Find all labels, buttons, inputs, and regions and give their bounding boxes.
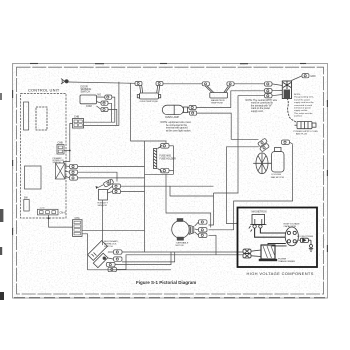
svg-text:supply cord.: supply cord. (251, 110, 264, 113)
primary relay lug 2 (65, 170, 78, 174)
door sensing switch (80, 95, 97, 104)
svg-text:earthed.: earthed. (294, 115, 302, 118)
fuse and fuse holder body (154, 145, 174, 174)
svg-text:COM: COM (86, 105, 92, 108)
svg-text:Figure S-1 Pictorial Diagram: Figure S-1 Pictorial Diagram (136, 280, 196, 285)
magnetron temp fuse left lug (202, 82, 209, 86)
wire: COM lug (108, 103, 112, 122)
humidity sensor lug right 1 (108, 184, 121, 190)
humidity sensor angled lug (103, 179, 114, 187)
svg-text:SWITCH: SWITCH (81, 91, 91, 94)
svg-text:HIGH VOLTAGE COMPONENTS: HIGH VOLTAGE COMPONENTS (247, 271, 314, 276)
wire: CHB left down to interlock (64, 124, 73, 164)
primary interlock relay (56, 163, 66, 179)
svg-text:The grounding term-: The grounding term- (294, 96, 314, 99)
control unit relay box (25, 166, 42, 189)
svg-text:connected to earth: connected to earth (294, 104, 313, 107)
wire: primary lug3 to trunk (78, 177, 145, 179)
power cord lug row1 (265, 82, 283, 86)
border frame outer (13, 64, 328, 299)
oven lamp note (161, 121, 191, 132)
transformer lug 1 (243, 249, 261, 253)
secondary interlock lug 1 (108, 250, 122, 254)
svg-text:1 2 3: 1 2 3 (40, 208, 46, 210)
svg-text:CHB: CHB (58, 142, 63, 145)
svg-text:SECONDARY: SECONDARY (104, 240, 118, 243)
chassis screw terminal (61, 79, 68, 84)
high voltage components box (238, 208, 318, 268)
cooling fan blade (253, 153, 271, 174)
wire: CN-A down to CHA (49, 215, 73, 227)
wire: motor lug1 riser (209, 193, 214, 225)
power supply plug (295, 122, 317, 129)
power cord tail (287, 98, 296, 122)
power cord lug row2 (265, 89, 283, 93)
primary relay lug 3 (65, 176, 78, 180)
wire: humidity body down to secondary interlock (102, 200, 104, 245)
svg-text:TURNTABLE: TURNTABLE (176, 242, 189, 245)
humidity sensor body (99, 190, 108, 201)
svg-text:MAGNETRON: MAGNETRON (211, 99, 225, 102)
h.v. rectifier (298, 238, 311, 242)
grounding lug GRN (292, 74, 310, 81)
humidity sensor lug right 2 (108, 189, 121, 193)
power supply cord strain relief (282, 81, 291, 99)
svg-text:This outlet must be: This outlet must be (294, 112, 313, 115)
oven lamp lug bottom (190, 111, 197, 115)
svg-text:TEMP FUSE: TEMP FUSE (211, 103, 223, 105)
secondary interlock switch body (88, 241, 108, 268)
oven temp fuse body (137, 86, 160, 100)
fan top lug (282, 140, 293, 144)
wire: turntable feed (170, 186, 214, 196)
wire: magnetron fuse to cord lug1 (234, 83, 264, 85)
wire: magnetron filament to capacitor (255, 228, 286, 237)
control unit keypad (36, 107, 47, 130)
wire: lamp top lug to cord row2 (196, 91, 264, 108)
wire: screw to oven temp fuse (68, 82, 135, 83)
svg-text:TRANSFORMER: TRANSFORMER (278, 260, 295, 263)
wire: oven fuse left down to fuse holder (131, 83, 166, 143)
fan lug upper (258, 138, 268, 147)
secondary interlock lug 4 (108, 267, 117, 271)
svg-text:MAGNETRON: MAGNETRON (252, 210, 267, 213)
svg-text:the terminal with "W": the terminal with "W" (251, 104, 272, 107)
svg-text:mark on the power: mark on the power (251, 107, 270, 110)
svg-text:FUSE HOLDER: FUSE HOLDER (160, 158, 177, 160)
turntable lug 1 (195, 220, 207, 226)
svg-text:OVEN LAMP: OVEN LAMP (165, 116, 179, 119)
fuse holder top lug (161, 144, 174, 149)
wire: sec lug3 run (115, 252, 171, 265)
wire: sec lug2 run (122, 252, 175, 262)
wire: cord row3 trunk (214, 96, 265, 193)
oven temp fuse right lug (156, 82, 163, 86)
wire: fan top lug to motor lug2 (209, 144, 293, 230)
svg-text:GRN: GRN (310, 76, 315, 78)
door switch lug NC (97, 106, 109, 112)
svg-text:HIGH VOLTAGE: HIGH VOLTAGE (284, 222, 301, 225)
wire: door loop outer (84, 82, 119, 126)
connector CHB inside control unit (57, 142, 64, 155)
svg-text:must be connected to: must be connected to (251, 102, 274, 105)
svg-text:terminal of power: terminal of power (294, 107, 311, 110)
svg-text:CN-A: CN-A (60, 210, 67, 214)
svg-text:CHB: CHB (74, 116, 79, 119)
magnetron (249, 215, 267, 232)
door switch lug COM (97, 101, 109, 105)
svg-text:FUSE AND: FUSE AND (160, 155, 172, 158)
wire: lamp bottom lug to fan upper lug (197, 113, 259, 139)
svg-text:NOTE: The neutral (WHT) wi: NOTE: The neutral (WHT) wire (246, 99, 278, 102)
oven lamp lug top (189, 105, 196, 109)
primary relay lug 1 (65, 164, 78, 168)
oven temp fuse left lug (135, 82, 142, 86)
wire: humidity lug to trunk y186 (121, 185, 214, 187)
turntable motor (172, 219, 194, 240)
wire: oven fuse to magnetron fuse (163, 83, 202, 85)
wire: left trunk vertical (144, 141, 146, 252)
neutral wire note (246, 99, 278, 113)
svg-text:at the oven light socket: at the oven light socket (166, 129, 191, 132)
wire: motor lug3 down (209, 235, 217, 255)
connector CN-A (38, 208, 67, 215)
wire: CHA to vertical junction (64, 150, 70, 152)
svg-text:NOTE:: NOTE: (294, 94, 301, 96)
svg-text:FAN MOTOR: FAN MOTOR (271, 176, 284, 179)
secondary interlock lug 3 (107, 262, 116, 266)
power cord note (294, 94, 314, 118)
ground symbol (309, 240, 313, 251)
svg-text:NO: NO (98, 94, 102, 97)
transformer lug 2 (243, 254, 261, 258)
fan lug lower (260, 143, 270, 152)
wire: primary lug2 to humidity sensor (78, 172, 117, 181)
magnetron temp fuse right lug (227, 82, 234, 86)
magnetron temp fuse body (205, 86, 231, 98)
connector CHB external (73, 116, 84, 129)
secondary interlock lug 2 (108, 257, 122, 261)
high voltage capacitor (285, 227, 298, 246)
svg-text:AND PLUG: AND PLUG (296, 133, 307, 136)
wire: fuse holder bottom to turntable row (166, 174, 211, 227)
svg-text:CONTROL UNIT: CONTROL UNIT (28, 87, 60, 92)
control unit dashed box (21, 94, 67, 219)
wire: transformer secondary to capacitor (268, 244, 286, 246)
svg-text:OVEN TEMP FUSE: OVEN TEMP FUSE (140, 101, 159, 103)
wire: CHA down long run (82, 234, 171, 270)
wire: sec lug1 to transformer (122, 251, 243, 253)
border frame inner (17, 67, 324, 294)
door switch lug NO (97, 95, 112, 99)
wire: CHA right to trunk (82, 229, 145, 231)
wire: NO lug to CHB (84, 97, 115, 122)
scan smudge marks left margin (0, 93, 4, 300)
svg-text:MOTOR: MOTOR (176, 245, 185, 247)
power transformer (259, 245, 277, 261)
svg-text:supply socket.: supply socket. (294, 109, 308, 112)
turntable lug 3 (195, 232, 207, 238)
wire: primary lug1 to trunk (78, 166, 145, 168)
turntable lug 2 (195, 228, 207, 232)
svg-text:supply cord must be: supply cord must be (294, 101, 314, 104)
svg-text:inal of the power: inal of the power (294, 98, 310, 101)
svg-text:SWITCH: SWITCH (104, 246, 113, 248)
fuse holder bottom lug (161, 168, 174, 173)
wire: sec lug4 to transformer row2 (117, 255, 244, 270)
power cord lug row3 (265, 94, 283, 98)
oven lamp (162, 105, 189, 114)
wire: humidity lug2 to trunk (121, 191, 145, 193)
wire: NC lug (108, 109, 117, 125)
control unit display board (24, 102, 29, 130)
cooling fan motor body (272, 148, 285, 173)
wire: fan lower lug to magnetron feed (227, 147, 259, 224)
connector CHA (73, 217, 83, 236)
wire: fuse holder loop to trunk (145, 173, 174, 175)
